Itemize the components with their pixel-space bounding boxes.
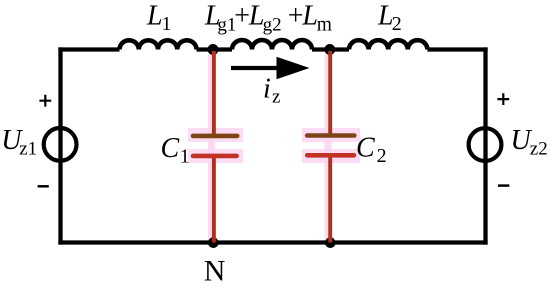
svg-text:z1: z1 [19,139,37,160]
wire top segment between L1 and middle inductor [197,47,233,51]
node junction dot top-left [208,44,219,55]
wire capacitor C2 upper lead [328,51,332,134]
svg-text:m: m [317,14,332,35]
svg-text:L: L [146,1,163,32]
svg-text:1: 1 [180,146,190,168]
inductor Lg1+Lg2+Lm [232,40,312,49]
svg-text:i: i [263,73,271,104]
capacitor C2 bottom plate [307,153,354,158]
capacitor C1 top plate [193,134,237,139]
node junction dot bottom-left (N) [208,237,219,248]
node junction dot bottom-right [325,237,336,248]
svg-text:1: 1 [162,13,172,35]
label plus left [39,95,51,107]
svg-text:2: 2 [392,13,402,35]
wire capacitor C1 upper lead [212,51,216,134]
label plus right [497,93,509,105]
wire bottom [58,240,487,244]
capacitor C2 top plate [307,133,354,138]
capacitor C1 bottom plate [193,154,237,159]
svg-text:+: + [288,1,304,32]
svg-text:z: z [272,86,280,107]
svg-text:L: L [301,1,318,32]
wire top segment right [427,47,487,51]
node junction dot top-right [324,44,335,55]
current arrow i_z head [277,57,310,79]
inductor L1 [120,40,197,49]
inductor L2 [349,40,427,49]
svg-text:z2: z2 [530,139,548,160]
node C1 halo [188,55,243,241]
wire right vertical [483,47,487,244]
label minus left [38,185,49,188]
svg-text:+: + [234,1,250,32]
svg-text:N: N [204,255,226,286]
wire top segment between middle inductor and L2 [312,47,349,51]
current arrow i_z shaft [231,66,279,70]
wire capacitor C1 lower lead [212,158,216,243]
svg-text:2: 2 [377,145,387,167]
wire capacitor C2 lower lead [328,157,332,242]
voltage source U_z1 circle [44,128,77,161]
label minus right [498,184,509,187]
voltage source U_z2 circle [469,128,502,161]
svg-text:C: C [161,133,180,164]
node C2 halo [302,55,360,241]
wire top segment left [58,47,119,51]
wire left vertical [58,47,62,244]
svg-text:g2: g2 [263,14,282,35]
svg-text:C: C [356,133,375,164]
